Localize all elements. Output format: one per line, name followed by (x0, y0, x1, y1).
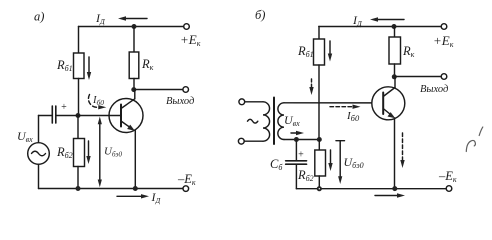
arrow Id bottom a (117, 194, 149, 198)
arrow Id bottom b (375, 193, 405, 197)
resistor Rk a (129, 27, 139, 90)
terminal -Ek a (183, 186, 189, 192)
arrow Ube0 a (98, 117, 102, 188)
svg-text:+Eк: +Eк (433, 33, 454, 49)
source Uvx a (28, 116, 50, 189)
svg-text:IД: IД (352, 13, 363, 28)
svg-text:Uбэ0: Uбэ0 (104, 146, 122, 159)
svg-text:Uвх: Uвх (17, 129, 33, 144)
wire top rail b (319, 26, 441, 28)
svg-text:+: + (298, 150, 305, 161)
junction Rb2 bottom b (317, 186, 322, 191)
dashed arrow emitter current b (400, 133, 404, 168)
svg-text:б): б) (255, 8, 265, 22)
terminal +Ek a (184, 24, 190, 30)
arrow Id top b (370, 17, 404, 21)
arrow current Rb1 b (328, 41, 332, 62)
dashed arrow base current b (309, 79, 313, 95)
arrow current Rb2 a (86, 141, 90, 164)
junction collector node a (131, 87, 136, 92)
wire bottom rail b (296, 188, 446, 190)
svg-text:+: + (61, 102, 68, 113)
junction emitter bottom b (392, 186, 397, 191)
svg-text:–Eк: –Eк (177, 172, 196, 187)
transformer T1 (263, 98, 284, 145)
wire top rail a (79, 26, 184, 28)
svg-text:Rб1: Rб1 (56, 58, 73, 73)
svg-text:а): а) (34, 10, 44, 24)
svg-text:Выход: Выход (420, 84, 448, 95)
svg-text:Rб1: Rб1 (297, 44, 314, 59)
arrow Id top a (118, 16, 147, 20)
svg-text:IД: IД (151, 190, 162, 205)
junction node top b (392, 24, 397, 29)
svg-text:Rк: Rк (402, 44, 415, 59)
svg-text:Rк: Rк (141, 57, 154, 72)
wire emitter b (394, 118, 396, 189)
arrow current Rb1 (87, 57, 91, 80)
svg-text:Uвх: Uвх (284, 113, 300, 128)
transistor VT1 a (109, 90, 143, 133)
junction Rb2 bottom a (76, 186, 81, 191)
svg-text:Rб2: Rб2 (56, 145, 73, 160)
wire output a (134, 89, 183, 91)
label tilde b (248, 119, 258, 123)
handwritten mark (466, 127, 483, 152)
wire output b (395, 76, 442, 78)
terminal -Ek b (446, 186, 452, 192)
dashed arrow Ib0 b (330, 105, 361, 109)
resistor Rk b (389, 27, 401, 77)
svg-text:IД: IД (95, 11, 106, 26)
input terminal top b (239, 99, 245, 105)
wire secondary bottom b (284, 139, 319, 141)
svg-text:Rб2: Rб2 (297, 168, 314, 183)
junction base node a (76, 113, 81, 118)
terminal +Ek b (441, 24, 447, 30)
arrow Ube0 b (336, 141, 345, 184)
transistor VT1 b (372, 77, 405, 120)
capacitor input a (39, 106, 122, 123)
junction emitter bottom a (133, 186, 138, 191)
capacitor Cb (286, 140, 307, 189)
resistor Rb1 b (314, 27, 325, 140)
dashed curved arrow Ib0 a (88, 95, 106, 110)
wire secondary top to base (284, 102, 372, 104)
wire input top b (245, 101, 263, 103)
svg-text:–Eк: –Eк (438, 169, 457, 184)
svg-text:Cб: Cб (270, 157, 283, 172)
resistor Rb2 a (74, 116, 85, 189)
svg-text:+Eк: +Eк (180, 32, 201, 48)
wire input bottom b (244, 140, 263, 142)
terminal output b (441, 74, 447, 80)
wire emitter a (134, 131, 136, 189)
svg-text:Uбэ0: Uбэ0 (344, 155, 364, 170)
terminal output a (183, 87, 189, 93)
svg-text:Iб0: Iб0 (92, 95, 104, 107)
resistor Rb1 (74, 27, 85, 116)
arrow current Rb2 b (328, 150, 332, 171)
junction collector node b (392, 74, 397, 79)
svg-text:Выход: Выход (166, 96, 194, 107)
input terminal bottom b (238, 138, 244, 144)
resistor Rb2 b (315, 140, 326, 189)
junction Cb node b (294, 137, 299, 142)
svg-text:Iб0: Iб0 (346, 110, 360, 123)
arrow Uvx b (291, 131, 304, 135)
wire bottom rail a (39, 188, 184, 190)
junction Rb2 node b (317, 137, 322, 142)
junction node top a (132, 24, 137, 29)
